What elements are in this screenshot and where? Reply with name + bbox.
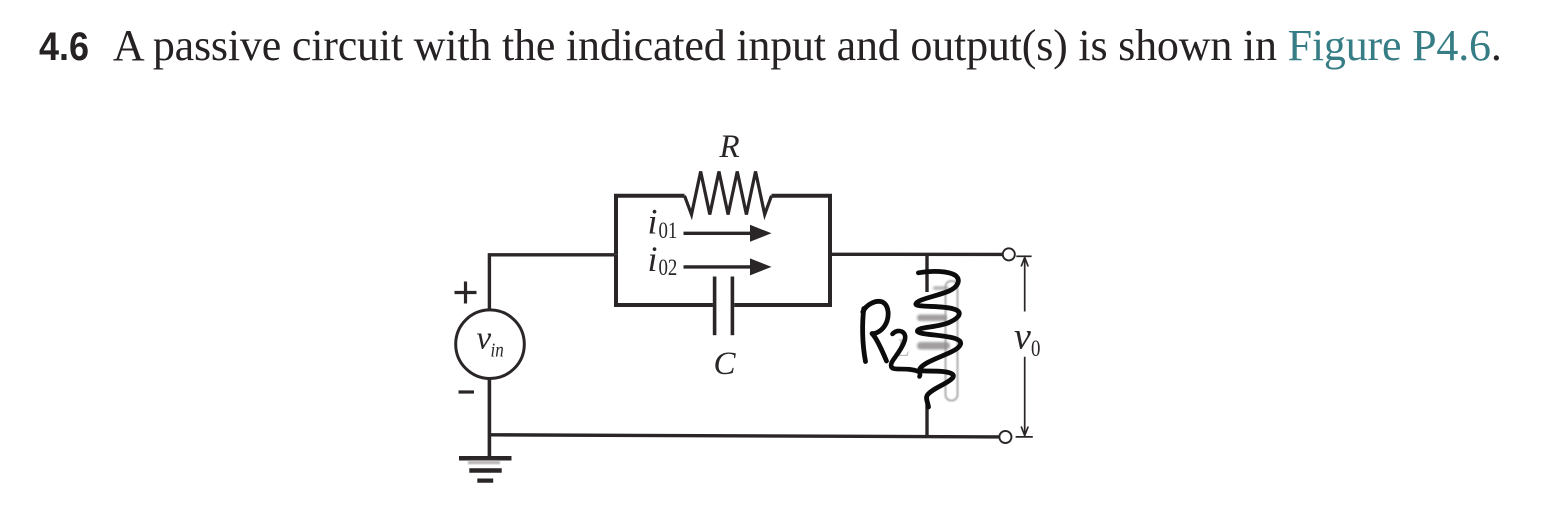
svg-text:i: i xyxy=(648,201,658,241)
svg-text:v: v xyxy=(477,320,492,356)
svg-text:v: v xyxy=(1014,315,1031,357)
svg-text:C: C xyxy=(714,346,737,382)
svg-text:R: R xyxy=(719,129,740,165)
svg-text:01: 01 xyxy=(659,217,678,243)
svg-text:02: 02 xyxy=(659,254,678,280)
svg-text:i: i xyxy=(648,239,658,279)
svg-text:in: in xyxy=(491,339,504,362)
svg-text:0: 0 xyxy=(1031,335,1040,361)
